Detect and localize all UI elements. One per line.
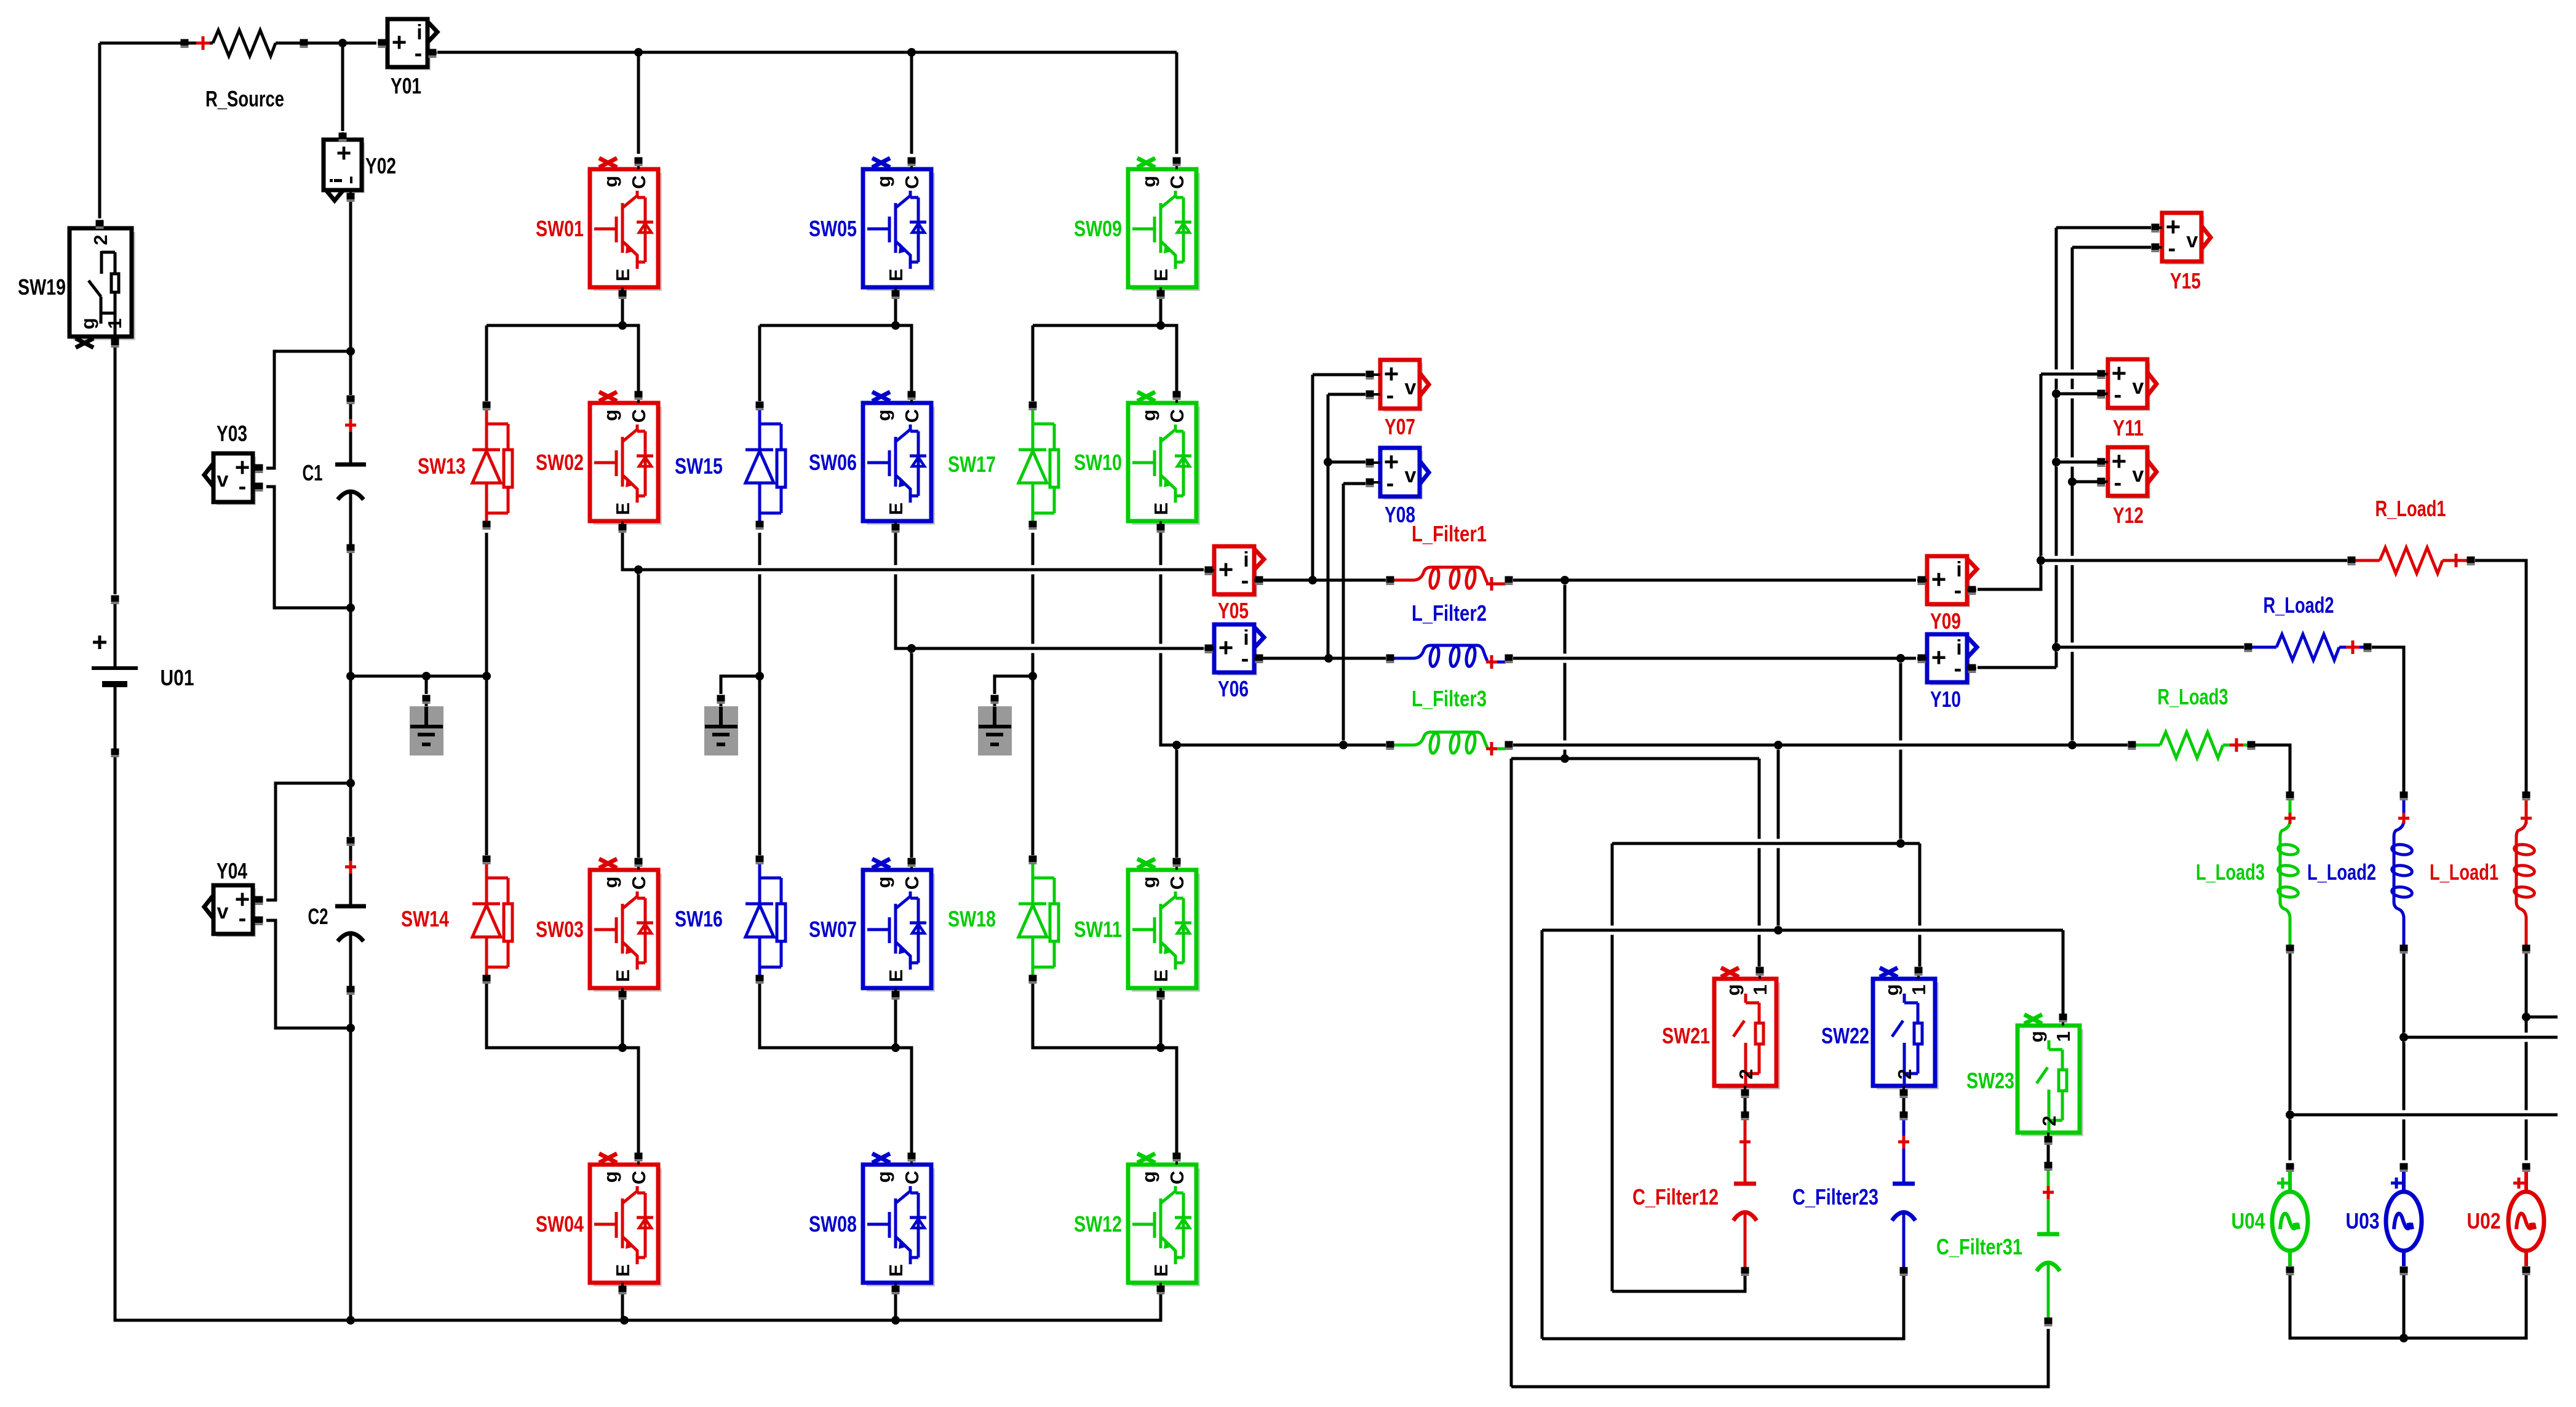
wire: SW22 to C_Filter23 link (1902, 1097, 1906, 1112)
wire: Y07 + vertical to phase A (1311, 375, 1314, 580)
svg-text:Y11: Y11 (2113, 415, 2144, 440)
clamp diode SW13 (472, 409, 512, 521)
wire: C_Filter12 bottom return (1612, 1275, 1745, 1291)
svg-text:L_Load3: L_Load3 (2196, 859, 2265, 885)
junction Y08- tap on phase C (1339, 741, 1348, 749)
svg-text:SW23: SW23 (1966, 1068, 2014, 1093)
svg-text:U03: U03 (2346, 1208, 2380, 1234)
junction load line B tap (2052, 643, 2061, 652)
wire: source neutral bus (2290, 1274, 2526, 1338)
junction Y12+ tap (2052, 458, 2061, 466)
wire: U03 bottom stub (2403, 1274, 2406, 1338)
IGBT module SW02 (590, 392, 662, 528)
wire: phase B tap down to SW22 row (1899, 658, 1902, 843)
svg-text:Y08: Y08 (1385, 502, 1415, 527)
junction ground1 tap (422, 672, 431, 680)
svg-text:SW15: SW15 (675, 453, 723, 479)
IGBT module SW11 (1128, 859, 1200, 995)
wire: R_Load1 to L_Load1 (2475, 560, 2526, 792)
svg-text:Y15: Y15 (2170, 268, 2201, 293)
junction C_Filter23 loop tap phase C (1774, 741, 1783, 749)
wire: SW19 to U01 positive (114, 346, 117, 594)
svg-text:Y05: Y05 (1218, 598, 1249, 623)
wire: leg1 SW emitter to upper clamp node (621, 298, 624, 325)
wire: R_Load2 to L_Load2 (2372, 647, 2404, 792)
wire: C_Filter12 return left vertical (1611, 843, 1614, 1291)
wire: leg2 lower clamp bottom to emitter node (760, 983, 896, 1048)
wire: Y15-/Y12- vertical to phase C (2071, 247, 2074, 745)
wire: source to R_Source (100, 42, 185, 45)
wire: leg2 inner emitter to phase node (896, 532, 912, 648)
wire: leg1 SW3 emitter drop (621, 995, 624, 1048)
svg-text:Y04: Y04 (217, 858, 247, 883)
junction leg3 upper clamp node (1156, 321, 1165, 330)
capacitor C_Filter12 (1733, 1119, 1757, 1267)
wire: leg3 clamp top stub (1032, 325, 1035, 401)
switch SW21 (1714, 968, 1780, 1093)
IGBT module SW08 (863, 1154, 935, 1289)
junction phase B output node (907, 644, 916, 653)
wire: L_Filter1 out to Y09 input (1513, 576, 1916, 585)
clamp diode SW18 (1019, 863, 1059, 975)
wire: L_Filter2 out to Y10 input (1513, 654, 1916, 663)
wire: Y12 + sense (2056, 458, 2097, 467)
svg-text:Y10: Y10 (1930, 687, 1961, 712)
wire: top-left down to SW19 (98, 43, 101, 218)
wire: leg3 SW4 emitter to DC- rail (1159, 1294, 1163, 1320)
wire: rail drop to SW09 collector (1175, 52, 1179, 154)
svg-text:SW05: SW05 (809, 216, 857, 241)
switch SW19 (70, 224, 135, 348)
wire: Y11 + sense (2041, 370, 2097, 379)
wire: SW23 to C_Filter31 link (2047, 1144, 2050, 1162)
wire: leg2 SW3 emitter drop (894, 995, 897, 1048)
wire: Y06 output to L_Filter2 (1263, 657, 1386, 660)
junction phase C tap on SW23 row (1774, 926, 1783, 935)
wire: leg2 clamp top stub (758, 325, 761, 401)
wire: SW21 row to SW21 port1 (1758, 759, 1761, 967)
wire: rail drop to SW01 collector (637, 52, 640, 154)
wire: leg1 phase node down to lower inner collector (637, 570, 640, 858)
wire: leg3 SW3 emitter drop (1159, 995, 1163, 1048)
junction DC+ rail leg1 (634, 48, 643, 57)
junction Y07+ tap on phase A (1308, 576, 1317, 584)
wire: leg2 clamp middle vertical (758, 533, 761, 855)
wire: C_Filter23 return left vertical (1541, 930, 1544, 1339)
wire: leg3 inner emitter to phase node (1161, 532, 1177, 745)
junction leg2 upper clamp node (891, 321, 900, 330)
wire: phase C tap down to SW23 row (1777, 745, 1780, 930)
junction leg3 lower clamp node (1156, 1043, 1165, 1052)
svg-text:C2: C2 (308, 904, 328, 929)
wire: leg1 lower emitter node jog to bottom collector (622, 1048, 638, 1153)
IGBT module SW01 (590, 158, 662, 294)
wire: phase A to Y05 input (638, 565, 1204, 575)
junction leg2 phase output node (907, 644, 916, 653)
wire: L_Load1 to U02 (2525, 952, 2528, 1160)
svg-text:SW21: SW21 (1662, 1023, 1710, 1048)
junction DC- rail at SW04 emitter (620, 1316, 629, 1325)
AC source U02 (2508, 1170, 2544, 1266)
svg-text:SW11: SW11 (1074, 917, 1122, 942)
ground symbol 2 (704, 700, 738, 755)
svg-text:SW18: SW18 (948, 906, 996, 931)
wire: leg3 clamp middle vertical (1032, 533, 1035, 855)
wire: leg2 SW emitter to upper clamp node (894, 298, 897, 325)
wire: Y12 - sense (2072, 480, 2097, 484)
wire: Y10 output jog to load line B (1978, 666, 2056, 669)
wire: Y09 output jog up to load line A (1978, 560, 2041, 589)
wire: Y08 + sense (1328, 461, 1366, 464)
wire: Y04 + sense loop (266, 783, 351, 900)
wire: SW21 to C_Filter12 link (1744, 1097, 1747, 1112)
junction source neutral at U03 (2399, 1334, 2408, 1342)
svg-text:U01: U01 (161, 665, 194, 690)
wire: Y11 - sense (2056, 389, 2097, 399)
junction at R_Source output node (338, 39, 347, 47)
wire: R_Source to Y01 input (304, 42, 376, 45)
wire: Y03 - sense loop (266, 487, 351, 608)
clamp diode SW14 (472, 863, 512, 975)
IGBT module SW04 (590, 1154, 662, 1289)
wire: leg1 clamp middle vertical (485, 533, 488, 855)
wire: Y03 + sense loop (266, 351, 351, 468)
IGBT module SW06 (863, 392, 935, 528)
junction neutral at Y03- tap (346, 604, 355, 612)
AC source U03 (2386, 1170, 2422, 1266)
svg-text:Y12: Y12 (2113, 503, 2144, 528)
wire: return stub line 1 (2526, 1016, 2558, 1019)
IGBT module SW05 (863, 158, 935, 294)
junction neutral at ground rail (346, 672, 355, 680)
svg-text:SW12: SW12 (1074, 1211, 1122, 1237)
wire: leg3 SW emitter to upper clamp node (1159, 298, 1163, 325)
junction leg2 lower clamp node (891, 1043, 900, 1052)
switch SW22 (1873, 968, 1939, 1093)
svg-text:SW02: SW02 (536, 450, 584, 475)
junction L_Load3 return tap (2286, 1110, 2294, 1119)
svg-text:SW14: SW14 (401, 906, 449, 931)
wire: leg2 phase node down to lower inner collector (910, 648, 913, 858)
wire: Y07 - sense (1328, 393, 1366, 396)
junction Y08+ on sense vertical (1324, 458, 1332, 466)
wire: corner repair Y15- (2071, 247, 2074, 260)
svg-text:R_Load3: R_Load3 (2158, 684, 2228, 709)
wire: stub to ground1 (425, 676, 428, 694)
wire: neutral rail to clamp diodes leg1 (351, 675, 487, 678)
wire: L_Filter3 out to R_Load3 (1513, 741, 2128, 750)
junction leg1 phase output node (634, 565, 643, 574)
wire: SW23 row horizontal (1542, 926, 2063, 935)
wire: C_Filter23 bottom return (1542, 1275, 1904, 1339)
junction DC- rail at C2 leg (346, 1316, 355, 1325)
wire: phase C to L_Filter3 (1177, 741, 1386, 750)
capacitor C_Filter31 (2037, 1170, 2060, 1318)
voltmeter Y08 (1370, 447, 1429, 500)
voltmeter Y04 (204, 885, 263, 937)
junction Y12- tap (2068, 477, 2077, 486)
junction Y11- tap (2052, 389, 2061, 398)
svg-text:SW03: SW03 (536, 917, 584, 942)
AC source U04 (2272, 1170, 2308, 1266)
wire: SW23 row to SW23 port1 (2062, 930, 2065, 1014)
wire: Y08 - sense (1343, 482, 1366, 485)
wire: R_Load3 to L_Load3 (2255, 745, 2290, 792)
inductor L_Load1 (2514, 799, 2535, 945)
junction phase B tap on SW22 row (1896, 839, 1905, 848)
svg-text:C1: C1 (303, 460, 323, 485)
svg-text:R_Source: R_Source (205, 86, 284, 111)
capacitor C2 (335, 845, 366, 986)
svg-text:U04: U04 (2232, 1208, 2265, 1234)
junction L_Load1 return tap (2522, 1013, 2530, 1021)
resistor R_Load1 (2355, 548, 2467, 573)
inductor L_Load3 (2278, 799, 2299, 945)
resistor R_Load2 (2252, 634, 2364, 660)
wire: leg1 clamp top stub (485, 325, 488, 401)
wire: Y05 output to L_Filter1 (1263, 579, 1386, 582)
svg-text:SW07: SW07 (809, 917, 857, 942)
wire: C_Filter31 return left vertical (1510, 759, 1513, 1387)
wire: C1 bottom to C2 top (neutral column) (349, 552, 352, 837)
junction L_Load2 return tap (2399, 1033, 2408, 1042)
wire: Y15 - sense (2072, 243, 2151, 252)
junction Y12-/Y15- tap phase C (2068, 741, 2077, 749)
wire: C_Filter31 bottom return (1511, 1329, 2048, 1387)
wire: SW22 row to SW22 port1 (1918, 843, 1922, 967)
ammeter Y02 (324, 132, 365, 201)
svg-text:Y07: Y07 (1385, 414, 1415, 439)
junction node DC+ link at C1 (346, 347, 355, 356)
inductor L_Filter2 (1394, 645, 1506, 669)
wire: U01 negative to DC- bottom rail to SW12 emitter (115, 757, 1161, 1320)
inductor L_Filter3 (1394, 732, 1506, 755)
svg-text:SW13: SW13 (418, 453, 466, 479)
junction leg1 lower clamp node (618, 1043, 627, 1052)
wire: C2 bottom to DC- rail (349, 990, 352, 1320)
wire: leg1 lower clamp bottom to emitter node (487, 983, 622, 1048)
junction C_Filter tap phase A (1560, 576, 1569, 584)
junction leg2 clamp neutral tap (755, 672, 764, 680)
wire: Y02 output to C1 top (349, 201, 352, 395)
svg-text:SW22: SW22 (1821, 1023, 1869, 1048)
wire: L_Load2 to U03 (2403, 952, 2406, 1160)
svg-text:L_Filter1: L_Filter1 (1412, 521, 1487, 546)
IGBT module SW10 (1128, 392, 1200, 528)
wire: leg3 upper clamp node to inner collector (1033, 325, 1177, 391)
inductor L_Filter1 (1394, 567, 1506, 591)
junction leg1 upper clamp node (618, 321, 627, 330)
IGBT module SW09 (1128, 158, 1200, 294)
battery U01 (92, 602, 138, 749)
ground symbol 3 (978, 700, 1012, 755)
wire: leg2 SW4 emitter to DC- rail (894, 1294, 897, 1320)
wire: Y11+ vertical (2040, 374, 2043, 560)
svg-text:Y03: Y03 (217, 421, 247, 446)
svg-text:SW16: SW16 (675, 906, 723, 931)
svg-text:C_Filter31: C_Filter31 (1936, 1234, 2022, 1259)
ground symbol 1 (410, 700, 443, 755)
junction at Y04- tap (346, 1024, 355, 1032)
junction DC+ rail leg2 (907, 48, 916, 57)
ammeter Y10 (1917, 634, 1977, 685)
capacitor C1 (335, 403, 366, 544)
junction neutral at Y04+ tap (346, 779, 355, 787)
wire: phase A tap down to SW21 row (1564, 580, 1567, 759)
wire: corner repair Y11+ (2040, 374, 2043, 386)
ammeter Y01 (378, 19, 437, 70)
junction leg3 phase output node (1172, 741, 1181, 749)
voltmeter Y15 (2152, 212, 2211, 265)
wire: Y15 + sense (2056, 226, 2151, 229)
wire: load line B to R_Load2 (2056, 643, 2244, 652)
junction leg1 clamp neutral tap (482, 672, 491, 680)
voltmeter Y03 (204, 453, 263, 505)
wire: leg1 upper clamp node to inner collector (487, 325, 638, 391)
wire: leg2 upper clamp node to inner collector (760, 325, 912, 391)
wire: phase B to Y06 input (912, 644, 1204, 653)
wire: leg2 lower emitter node jog to bottom collector (896, 1048, 912, 1153)
IGBT module SW12 (1128, 1154, 1200, 1289)
voltmeter Y12 (2098, 447, 2157, 499)
switch SW23 (2017, 1014, 2083, 1140)
wire: return stub line 3 (2290, 1110, 2558, 1120)
junction DC- rail at SW08 emitter (891, 1316, 900, 1325)
junction phase C output node (1172, 741, 1181, 749)
junction phase A output node (634, 565, 643, 574)
clamp diode SW16 (745, 863, 785, 975)
svg-text:SW10: SW10 (1074, 450, 1122, 475)
svg-text:SW09: SW09 (1074, 216, 1122, 241)
wire: return stub line 2 (2404, 1033, 2558, 1042)
wire: node down to Y02 input (341, 43, 344, 131)
svg-text:L_Filter2: L_Filter2 (1412, 600, 1487, 626)
junction leg3 clamp neutral tap (1028, 672, 1037, 680)
ammeter Y06 (1204, 624, 1264, 676)
svg-text:Y06: Y06 (1218, 676, 1249, 701)
wire: ground3 stub (995, 676, 1033, 694)
wire: L_Load3 to U04 (2289, 952, 2292, 1160)
wire: leg3 phase node down to lower inner collector (1175, 745, 1179, 858)
voltmeter Y07 (1370, 359, 1429, 412)
wire: Y15+/Y11-/Y12+ vertical (2055, 228, 2058, 668)
svg-text:SW19: SW19 (18, 274, 66, 300)
svg-text:C_Filter23: C_Filter23 (1792, 1184, 1878, 1210)
svg-text:R_Load1: R_Load1 (2375, 496, 2446, 521)
svg-text:U02: U02 (2467, 1208, 2501, 1234)
junction SW22 tap phase B (1896, 654, 1905, 663)
wire: load line A to R_Load1 (2041, 556, 2347, 565)
junction Y07-/Y08+ tap on phase B (1324, 654, 1333, 663)
wire: Y08 - vertical to phase C (1342, 484, 1345, 745)
junction phase A tap on SW21 row (1560, 754, 1569, 763)
svg-text:SW17: SW17 (948, 452, 996, 477)
capacitor C_Filter23 (1892, 1119, 1915, 1267)
wire: leg1 inner emitter to phase node (622, 532, 638, 570)
svg-text:SW01: SW01 (536, 216, 584, 241)
svg-text:C_Filter12: C_Filter12 (1632, 1184, 1719, 1210)
svg-text:Y01: Y01 (391, 73, 421, 98)
clamp diode SW17 (1019, 409, 1059, 521)
wire: leg1 SW4 emitter to DC- rail (621, 1294, 624, 1320)
wire: ground2 stub (721, 676, 760, 694)
wire: SW21 row horizontal (1511, 757, 1759, 760)
svg-text:Y02: Y02 (365, 153, 396, 178)
ammeter Y09 (1917, 556, 1977, 607)
IGBT module SW03 (590, 859, 662, 995)
svg-text:Y09: Y09 (1930, 608, 1961, 634)
IGBT module SW07 (863, 859, 935, 995)
wire: leg3 lower emitter node jog to bottom collector (1161, 1048, 1177, 1153)
svg-text:L_Load1: L_Load1 (2430, 859, 2498, 885)
ammeter Y05 (1204, 546, 1264, 597)
voltmeter Y11 (2098, 359, 2157, 411)
svg-text:L_Load2: L_Load2 (2307, 859, 2376, 885)
resistor R_Load3 (2136, 732, 2248, 758)
resistor R_Source (188, 30, 300, 56)
svg-text:R_Load2: R_Load2 (2264, 592, 2334, 618)
svg-text:SW06: SW06 (809, 450, 857, 475)
wire: SW22 row horizontal (1612, 839, 1920, 848)
wire: Y07-/Y08+ vertical to phase B (1327, 394, 1330, 658)
junction load line A tap (2037, 556, 2045, 565)
wire: Y07 + sense (1313, 373, 1366, 377)
wire: Y04 - sense loop (266, 920, 351, 1028)
svg-text:L_Filter3: L_Filter3 (1412, 686, 1487, 711)
inductor L_Load2 (2391, 799, 2413, 945)
svg-text:SW08: SW08 (809, 1211, 857, 1237)
wire: DC+ top rail from Y01 output (437, 51, 1177, 54)
clamp diode SW15 (745, 409, 785, 521)
svg-text:SW04: SW04 (536, 1211, 584, 1237)
wire: leg3 lower clamp bottom to emitter node (1033, 983, 1161, 1048)
wire: rail drop to SW05 collector (910, 52, 913, 154)
